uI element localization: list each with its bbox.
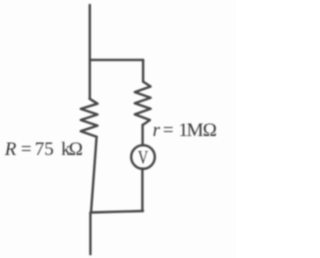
wire right branch upper — [142, 60, 144, 82]
voltmeter V circle — [131, 145, 155, 169]
resistor r zigzag — [135, 82, 151, 125]
wire top vertical — [89, 5, 91, 99]
svg-text:Ω: Ω — [203, 120, 217, 141]
wire resistor R bottom lead — [91, 137, 97, 213]
svg-text:Ω: Ω — [69, 139, 83, 160]
svg-text:=: = — [21, 139, 32, 160]
svg-text:=: = — [163, 120, 174, 141]
voltmeter V letter — [138, 146, 148, 167]
wire top horizontal — [90, 59, 143, 61]
wire bottom vertical — [89, 213, 91, 255]
svg-text:r: r — [153, 120, 161, 141]
svg-text:V: V — [138, 146, 148, 167]
wire voltmeter to bottom corner — [141, 169, 143, 212]
svg-text:R: R — [4, 139, 17, 160]
svg-text:75: 75 — [35, 139, 54, 160]
wire bottom horizontal — [91, 211, 143, 213]
wire resistor to voltmeter — [141, 125, 143, 146]
resistor R zigzag — [81, 99, 98, 137]
svg-text:M: M — [187, 120, 204, 141]
